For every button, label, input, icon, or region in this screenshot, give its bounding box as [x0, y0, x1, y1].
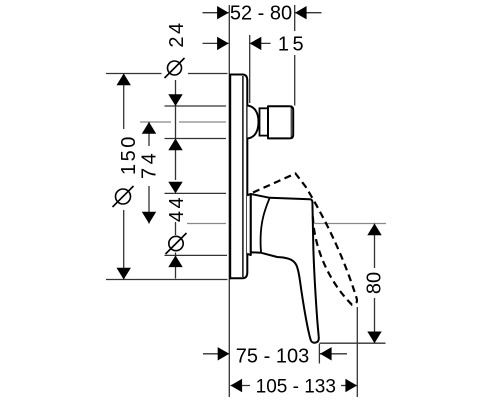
escutcheon plate [230, 74, 247, 280]
wire solid-handle-tip extension [318, 344, 320, 364]
svg-text:105 - 133: 105 - 133 [256, 376, 336, 397]
dimension D150 plate diameter [113, 74, 141, 280]
handle lever body [251, 194, 319, 343]
dimension D24 spout [165, 20, 189, 180]
dimension D44 sleeve [166, 182, 189, 279]
spout nut edge line [290, 107, 292, 138]
dashed handle raised position [253, 174, 357, 305]
svg-text:15: 15 [278, 33, 307, 55]
svg-text:44: 44 [166, 195, 188, 222]
wire plate top extension [106, 73, 162, 75]
spout connection bulge [248, 106, 259, 139]
wire dashed-handle-tip extension [356, 307, 358, 397]
wire spout diameter bottom extension [165, 138, 227, 140]
wire wall extension line [228, 5, 230, 397]
dimension 105-133 [231, 376, 358, 397]
wire spout diameter top extension [165, 105, 227, 107]
D44 diameter symbol [169, 236, 183, 250]
handle sleeve D44 [247, 194, 251, 255]
wire sleeve bottom extension [165, 254, 228, 256]
wire spout-tip extension line lower [294, 55, 296, 106]
wire sleeve top extension [165, 192, 227, 194]
svg-text:52 - 80: 52 - 80 [230, 3, 292, 25]
wire plate bottom extension [106, 279, 228, 281]
dimension 80 handle reach [364, 224, 386, 344]
spout collar ring [260, 108, 269, 135]
wire handle centerline left [187, 223, 226, 225]
svg-text:74: 74 [139, 150, 161, 179]
plate front inner contour [242, 76, 244, 277]
svg-text:150: 150 [118, 134, 140, 175]
spout nut [268, 106, 293, 138]
D150 diameter symbol [116, 189, 131, 204]
handle neck contour [261, 198, 270, 253]
wire handle-reach bottom extension [319, 342, 385, 344]
svg-text:24: 24 [166, 20, 188, 47]
dimension 74 [139, 122, 161, 224]
svg-text:75 - 103: 75 - 103 [236, 346, 309, 368]
dimension 52-80 top [203, 3, 322, 25]
wire spout centerline [140, 121, 171, 123]
wire spout-tip extension line upper [294, 5, 296, 31]
dimension 75-103 [203, 346, 347, 368]
wire plate-front extension line [249, 35, 251, 103]
wire handle centerline right [315, 223, 387, 225]
D24 diameter symbol [168, 61, 182, 75]
svg-text:80: 80 [364, 272, 386, 294]
dimension 15 [203, 33, 308, 55]
